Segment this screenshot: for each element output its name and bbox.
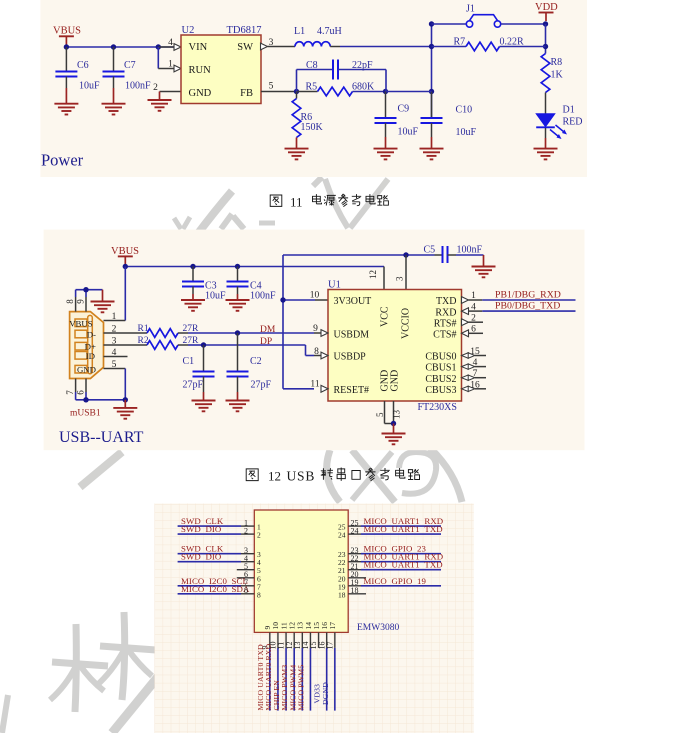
mUSB1 contacts bbox=[75, 319, 87, 327]
capacitor C3 10uF bbox=[182, 267, 226, 302]
svg-text:10: 10 bbox=[310, 291, 320, 301]
ground C2 bbox=[226, 401, 250, 412]
ground C5 bbox=[472, 267, 496, 278]
svg-text:2: 2 bbox=[257, 531, 261, 540]
ground C1 bbox=[192, 401, 216, 412]
svg-text:1: 1 bbox=[112, 312, 117, 322]
svg-text:4: 4 bbox=[473, 358, 478, 368]
wire J1 to VDD node bbox=[501, 23, 546, 25]
svg-text:27R: 27R bbox=[183, 324, 200, 334]
svg-text:PB0/DBG_TXD: PB0/DBG_TXD bbox=[495, 301, 560, 312]
pin 11 EMW3080 bottom bbox=[272, 622, 288, 711]
svg-text:24: 24 bbox=[338, 531, 346, 540]
svg-text:18: 18 bbox=[338, 590, 346, 599]
svg-text:TD6817: TD6817 bbox=[227, 25, 262, 36]
svg-text:C1: C1 bbox=[183, 356, 195, 367]
pin 7 CBUS bbox=[462, 369, 487, 380]
schematic panel: Power bbox=[40, 0, 587, 177]
capacitor C6 bbox=[55, 47, 100, 104]
svg-text:8: 8 bbox=[244, 586, 248, 595]
resistor R6 150K bbox=[292, 92, 323, 149]
svg-text:6: 6 bbox=[76, 390, 86, 395]
ground C6 bbox=[54, 104, 78, 115]
pin 14 EMW3080 bottom bbox=[296, 622, 312, 711]
svg-text:FB: FB bbox=[240, 88, 253, 99]
junction VDD bbox=[543, 21, 548, 26]
power port VBUS (USB) bbox=[111, 246, 139, 267]
ground C4 bbox=[226, 300, 250, 311]
svg-text:mUSB1: mUSB1 bbox=[70, 408, 101, 418]
svg-text:L1: L1 bbox=[294, 26, 305, 37]
svg-text:FT230XS: FT230XS bbox=[418, 402, 457, 413]
junction FB/R6 bbox=[294, 89, 299, 94]
svg-text:DP: DP bbox=[260, 337, 272, 347]
svg-text:10uF: 10uF bbox=[398, 127, 419, 138]
svg-text:R8: R8 bbox=[551, 57, 563, 68]
pin 20 EMW3080 right bbox=[338, 570, 366, 583]
mUSB1 shell pins 7,6 bbox=[65, 379, 125, 400]
svg-text:MICO I2C0 SDA: MICO I2C0 SDA bbox=[181, 584, 250, 594]
pin 1 EMW3080 left bbox=[178, 516, 261, 532]
ground D1 bbox=[534, 149, 558, 160]
svg-text:USB: USB bbox=[287, 469, 316, 484]
LED D1 RED bbox=[536, 105, 582, 140]
svg-text:5: 5 bbox=[269, 81, 274, 91]
svg-text:18: 18 bbox=[351, 586, 359, 595]
svg-text:C7: C7 bbox=[124, 60, 136, 71]
watermark strokes bbox=[2, 177, 462, 733]
pin 3 EMW3080 left bbox=[178, 544, 261, 560]
svg-text:22pF: 22pF bbox=[352, 60, 373, 71]
title Power bbox=[41, 151, 84, 170]
svg-text:C6: C6 bbox=[77, 60, 89, 71]
wire VCC pin12 bbox=[368, 267, 384, 290]
pin 25 EMW3080 right bbox=[338, 516, 443, 532]
svg-text:1: 1 bbox=[168, 60, 173, 70]
wire VCCIO pin3 vertical bbox=[395, 255, 407, 290]
svg-text:CTS#: CTS# bbox=[433, 330, 456, 341]
junction U1 GND bbox=[391, 421, 396, 426]
svg-text:15: 15 bbox=[470, 347, 480, 357]
pin 8 EMW3080 left bbox=[178, 584, 261, 600]
pin 4 CBUS bbox=[462, 358, 487, 369]
junction R5/C9 bbox=[383, 89, 388, 94]
junction DM/C2 bbox=[235, 330, 240, 335]
capacitor C7 bbox=[103, 47, 152, 104]
svg-text:D1: D1 bbox=[563, 105, 575, 116]
svg-text:RUN: RUN bbox=[189, 65, 212, 76]
svg-text:MICO GPIO 19: MICO GPIO 19 bbox=[364, 576, 427, 586]
svg-text:3: 3 bbox=[395, 276, 405, 281]
wire 3V3OUT bus bbox=[283, 255, 435, 389]
pin 18 EMW3080 right bbox=[338, 586, 366, 599]
svg-text:11: 11 bbox=[310, 379, 319, 389]
pin 4 arrow bbox=[168, 38, 181, 50]
junction RUN branch bbox=[156, 44, 161, 49]
svg-text:13: 13 bbox=[392, 410, 402, 420]
pin 17 EMW3080 bottom bbox=[321, 622, 337, 711]
svg-text:VBUS: VBUS bbox=[69, 318, 93, 328]
wire DP bbox=[204, 337, 322, 356]
wire DM bbox=[238, 325, 322, 335]
svg-text:C5: C5 bbox=[424, 244, 436, 255]
pin 21 EMW3080 right bbox=[338, 560, 443, 576]
svg-text:R5: R5 bbox=[306, 82, 318, 93]
ground C7 bbox=[102, 104, 126, 115]
svg-text:U2: U2 bbox=[182, 25, 195, 36]
svg-text:150K: 150K bbox=[301, 122, 324, 133]
wire VBUS rail bbox=[66, 46, 174, 48]
pin 16 EMW3080 bottom bbox=[313, 622, 329, 711]
svg-text:CBUS0: CBUS0 bbox=[425, 352, 456, 363]
wire D1 to ground bbox=[545, 128, 547, 149]
pin 6 EMW3080 left bbox=[237, 570, 261, 583]
mUSB1 shell pins 8,9 bbox=[65, 290, 102, 312]
junction SW/J1 bbox=[429, 21, 434, 26]
pin 15 CBUS bbox=[462, 347, 487, 358]
pin 9 EMW3080 bottom bbox=[256, 626, 272, 711]
pin 2 RTS# bbox=[462, 313, 484, 325]
svg-text:MICO PWM5: MICO PWM5 bbox=[296, 665, 305, 711]
svg-text:7: 7 bbox=[65, 390, 75, 395]
svg-text:7: 7 bbox=[473, 369, 478, 379]
ground R6 bbox=[285, 149, 309, 160]
capacitor C4 100nF bbox=[227, 267, 277, 302]
junction VCCIO pin3 bbox=[403, 252, 408, 257]
svg-text:CBUS2: CBUS2 bbox=[425, 374, 456, 385]
svg-text:MICO UART1 TXD: MICO UART1 TXD bbox=[364, 560, 443, 570]
svg-text:27R: 27R bbox=[183, 336, 200, 346]
svg-text:RXD: RXD bbox=[435, 307, 456, 318]
wire SW to L1 bbox=[268, 46, 296, 48]
ground U2 pin2 bbox=[148, 100, 172, 111]
svg-text:2: 2 bbox=[471, 313, 476, 323]
caption: figure 12 USB to serial reference circuit bbox=[246, 468, 419, 484]
svg-text:8: 8 bbox=[65, 299, 75, 304]
svg-text:C8: C8 bbox=[306, 60, 318, 71]
junction GND node bbox=[123, 397, 128, 402]
inductor L1 4.7uH bbox=[294, 26, 342, 47]
svg-text:10uF: 10uF bbox=[205, 291, 226, 302]
wire FB row bbox=[261, 81, 297, 91]
ground mUSB1 bbox=[113, 400, 137, 419]
svg-text:C10: C10 bbox=[456, 105, 473, 116]
svg-text:0.22R: 0.22R bbox=[500, 37, 525, 48]
svg-text:SW: SW bbox=[237, 42, 253, 53]
jumper J1 bbox=[466, 3, 501, 27]
svg-text:3V3OUT: 3V3OUT bbox=[334, 296, 372, 307]
pin 3 SW arrow bbox=[261, 38, 274, 50]
junction DP/C1 bbox=[201, 342, 206, 347]
junction C4 bbox=[235, 264, 240, 269]
resistor R5 680K bbox=[297, 82, 386, 96]
wire VDD vertical bbox=[545, 24, 547, 54]
wire ID pin4 stub bbox=[104, 356, 128, 358]
svg-text:C9: C9 bbox=[398, 104, 410, 115]
pin 8 USBDP arrow bbox=[314, 347, 328, 359]
IC EMW3080 module body bbox=[254, 510, 399, 633]
pin 5 EMW3080 left bbox=[237, 562, 261, 575]
svg-text:VIN: VIN bbox=[189, 42, 208, 53]
pin 15 EMW3080 bottom bbox=[309, 622, 321, 650]
svg-text:DM: DM bbox=[260, 325, 276, 335]
svg-text:24: 24 bbox=[351, 526, 359, 535]
svg-text:R2: R2 bbox=[138, 336, 149, 346]
ground U1 bbox=[382, 424, 406, 445]
junction shell 6/7 bbox=[83, 397, 88, 402]
connector mUSB1 body bbox=[70, 312, 104, 379]
svg-text:Power: Power bbox=[41, 151, 84, 170]
capacitor C5 100nF bbox=[424, 244, 484, 266]
svg-text:1: 1 bbox=[471, 291, 476, 301]
svg-text:27pF: 27pF bbox=[251, 380, 272, 391]
mUSB1 pin name labels bbox=[69, 318, 96, 374]
svg-text:5: 5 bbox=[375, 412, 385, 417]
wire GND pin5 down bbox=[104, 369, 126, 400]
junction shell 8/9 bbox=[83, 287, 88, 292]
svg-text:100nF: 100nF bbox=[250, 291, 276, 302]
junction C3 bbox=[190, 264, 195, 269]
svg-text:9: 9 bbox=[76, 299, 86, 304]
capacitor C1 27pF bbox=[183, 345, 215, 401]
U1 GND pins 5,13 bbox=[375, 401, 402, 424]
ground C9 bbox=[374, 149, 398, 160]
op-amp U2 TD6817 regulator body bbox=[181, 25, 262, 103]
svg-text:GND: GND bbox=[189, 88, 212, 99]
svg-text:VCC: VCC bbox=[380, 306, 391, 327]
wire C9 node to C10 node bbox=[386, 91, 432, 93]
svg-text:PB1/DBG_RXD: PB1/DBG_RXD bbox=[495, 289, 561, 300]
pin 4 RXD bbox=[462, 302, 483, 314]
reference mUSB1 bbox=[70, 408, 101, 418]
junction R7/R8 bbox=[543, 44, 548, 49]
pin 1 TXD bbox=[462, 291, 483, 303]
svg-text:4.7uH: 4.7uH bbox=[317, 26, 342, 37]
resistor R8 1K bbox=[541, 54, 563, 114]
svg-text:VBUS: VBUS bbox=[111, 246, 139, 257]
capacitor C8 22pF bbox=[297, 60, 387, 92]
svg-text:VDD: VDD bbox=[535, 2, 558, 13]
svg-text:VBUS: VBUS bbox=[53, 26, 81, 37]
title USB--UART bbox=[59, 429, 144, 446]
wire TXD net PB1/DBG_RXD bbox=[482, 289, 575, 300]
svg-text:100nF: 100nF bbox=[457, 244, 483, 255]
caption: figure 11 power reference circuit bbox=[270, 194, 388, 210]
svg-text:11: 11 bbox=[290, 194, 303, 209]
pin 4 EMW3080 left bbox=[178, 552, 261, 568]
junction C7 bbox=[111, 44, 116, 49]
svg-text:6: 6 bbox=[471, 325, 476, 335]
svg-text:8: 8 bbox=[314, 347, 319, 357]
svg-text:U1: U1 bbox=[328, 279, 341, 290]
svg-text:USBDP: USBDP bbox=[334, 352, 367, 363]
svg-text:4: 4 bbox=[168, 38, 173, 48]
resistor R2 27R bbox=[104, 336, 204, 350]
capacitor C10 10uF bbox=[421, 92, 477, 149]
pin 23 EMW3080 right bbox=[338, 544, 441, 560]
svg-text:RESET#: RESET# bbox=[334, 385, 370, 396]
svg-text:8: 8 bbox=[257, 590, 261, 599]
wire RUN branch bbox=[158, 47, 174, 69]
junction VBUS stem bbox=[123, 264, 128, 269]
junction 3V3OUT pin10 bbox=[280, 291, 319, 303]
svg-text:1K: 1K bbox=[551, 70, 564, 81]
ground C3 bbox=[181, 300, 205, 311]
svg-text:USB--UART: USB--UART bbox=[59, 429, 144, 446]
svg-text:CBUS3: CBUS3 bbox=[425, 385, 456, 396]
wire SW vertical bus bbox=[431, 24, 433, 118]
svg-text:RED: RED bbox=[563, 117, 583, 128]
svg-text:R1: R1 bbox=[138, 324, 149, 334]
wire pin4 VIN bbox=[158, 46, 174, 48]
svg-text:2: 2 bbox=[244, 526, 248, 535]
junction VBUS/C6 bbox=[64, 44, 69, 49]
pin 22 EMW3080 right bbox=[338, 552, 443, 568]
svg-text:DGND: DGND bbox=[321, 682, 330, 705]
pin 12 EMW3080 bottom bbox=[280, 622, 296, 711]
svg-text:2: 2 bbox=[153, 83, 158, 93]
power port VDD bbox=[535, 2, 558, 21]
pin 11 RESET# arrow bbox=[310, 379, 328, 392]
svg-text:MICO UART1 TXD: MICO UART1 TXD bbox=[364, 524, 443, 534]
svg-text:GND: GND bbox=[390, 370, 401, 392]
IC U1 FT230XS body bbox=[328, 279, 462, 413]
svg-text:16: 16 bbox=[470, 380, 480, 390]
svg-text:4: 4 bbox=[471, 302, 476, 312]
svg-text:SWD DIO: SWD DIO bbox=[181, 552, 221, 562]
pin 9 USBDM arrow bbox=[313, 324, 328, 336]
svg-text:R7: R7 bbox=[454, 37, 466, 48]
pin 10 EMW3080 bottom bbox=[264, 622, 280, 711]
svg-text:C2: C2 bbox=[250, 356, 262, 367]
mUSB1 pin numbers 1-5 bbox=[112, 312, 117, 322]
svg-text:GND: GND bbox=[77, 365, 96, 375]
junction FB/C10 bbox=[429, 89, 434, 94]
svg-text:VCCIO: VCCIO bbox=[401, 308, 412, 339]
wire VBUS down to pin1 bbox=[104, 267, 126, 321]
svg-text:ID: ID bbox=[86, 351, 95, 361]
svg-text:27pF: 27pF bbox=[183, 380, 204, 391]
resistor R1 27R bbox=[104, 324, 238, 338]
svg-text:D-: D- bbox=[87, 330, 96, 340]
svg-text:RTS#: RTS# bbox=[434, 318, 457, 329]
wire VBUS rail to VCC bbox=[125, 266, 384, 268]
svg-text:9: 9 bbox=[313, 324, 318, 334]
ground shell top bbox=[91, 290, 115, 313]
svg-text:17: 17 bbox=[325, 642, 334, 650]
power port VBUS bbox=[53, 26, 81, 48]
svg-text:J1: J1 bbox=[466, 3, 475, 14]
capacitor C2 27pF bbox=[227, 333, 272, 401]
pin 1 arrow bbox=[168, 60, 181, 72]
svg-text:SWD DIO: SWD DIO bbox=[181, 524, 221, 534]
svg-text:12: 12 bbox=[368, 270, 378, 279]
svg-text:EMW3080: EMW3080 bbox=[357, 623, 399, 633]
svg-text:100nF: 100nF bbox=[125, 81, 151, 92]
pin 7 EMW3080 left bbox=[178, 576, 261, 592]
svg-text:USBDM: USBDM bbox=[334, 329, 370, 340]
svg-text:CBUS1: CBUS1 bbox=[425, 363, 456, 374]
svg-text:12: 12 bbox=[268, 469, 281, 484]
svg-text:10uF: 10uF bbox=[456, 127, 477, 138]
wire RXD net PB0/DBG_TXD bbox=[482, 301, 575, 312]
junction SW/R7 bbox=[429, 44, 434, 49]
svg-text:680K: 680K bbox=[352, 82, 375, 93]
ground C10 bbox=[420, 149, 444, 160]
pin 2 EMW3080 left bbox=[178, 524, 261, 540]
wire pin2 GND bbox=[153, 83, 181, 100]
pin 16 CBUS bbox=[462, 380, 487, 391]
pin 24 EMW3080 right bbox=[338, 524, 443, 540]
schematic panel: USB-UART bbox=[44, 230, 585, 451]
svg-text:10uF: 10uF bbox=[79, 81, 100, 92]
pin 19 EMW3080 right bbox=[338, 576, 441, 592]
svg-text:17: 17 bbox=[328, 622, 337, 630]
capacitor C9 10uF bbox=[375, 92, 419, 149]
pin 13 EMW3080 bottom bbox=[288, 622, 304, 711]
svg-text:TXD: TXD bbox=[436, 296, 457, 307]
wire to J1 bbox=[432, 23, 467, 25]
pin 6 CTS# bbox=[462, 325, 484, 337]
wire L1 to SW node bbox=[330, 46, 431, 48]
resistor R7 0.22R bbox=[432, 37, 546, 51]
